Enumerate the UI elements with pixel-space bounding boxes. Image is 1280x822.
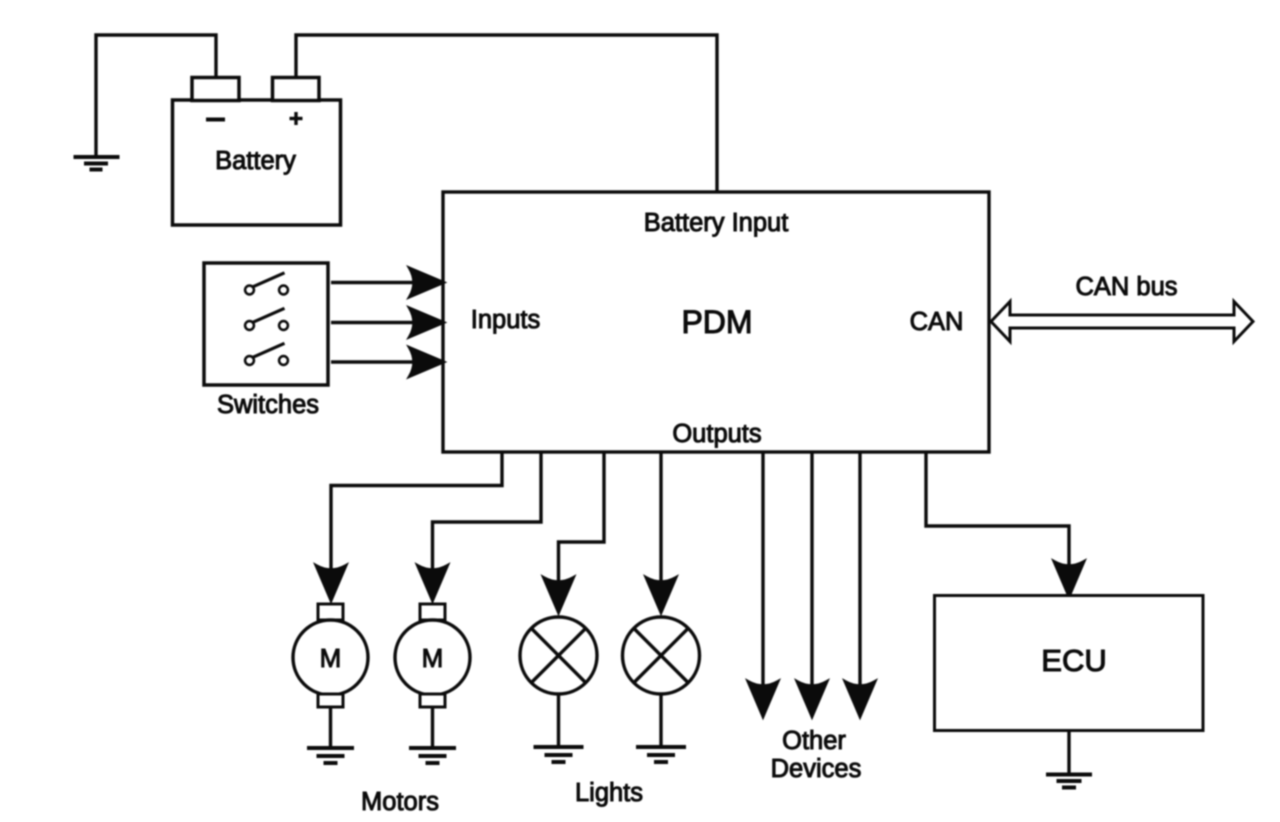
switch 3 [245, 343, 288, 365]
svg-text:M: M [422, 643, 444, 673]
svg-text:Lights: Lights [575, 779, 643, 807]
wire battery negative to ground [96, 35, 216, 157]
svg-text:Devices: Devices [771, 755, 862, 783]
wire output 2 to motor M2 [418, 452, 541, 600]
ground (motor M2) [409, 748, 456, 763]
input arrow 3 [331, 348, 443, 376]
motor M2 [395, 604, 470, 707]
switch 2 [245, 308, 288, 330]
svg-text:Motors: Motors [361, 788, 439, 816]
input arrow 1 [331, 269, 443, 297]
svg-text:Outputs: Outputs [672, 420, 761, 448]
svg-text:M: M [320, 643, 342, 673]
motor M1 [293, 604, 368, 707]
wire output 3 to lamp L1 [544, 452, 604, 612]
switches box [204, 263, 328, 385]
svg-text:PDM: PDM [681, 304, 752, 340]
wire ECU to ground [1067, 731, 1070, 775]
ground (ECU) [1046, 775, 1092, 788]
battery [173, 78, 341, 226]
svg-text:ECU: ECU [1041, 643, 1106, 678]
ground (lamp L2) [636, 747, 686, 762]
lamp L1 [520, 617, 597, 694]
other devices text label [771, 727, 862, 783]
wire output 6 other devices arrow [798, 452, 827, 716]
wire output 7 other devices arrow [846, 452, 875, 716]
wire battery positive to PDM battery input [296, 35, 717, 192]
svg-text:CAN bus: CAN bus [1075, 273, 1177, 301]
wire output 5 other devices arrow [749, 452, 778, 716]
svg-text:Switches: Switches [217, 391, 319, 419]
svg-text:Inputs: Inputs [471, 306, 540, 334]
lamp L2 [623, 617, 700, 694]
wire motor M2 to ground [431, 707, 434, 748]
ECU box [935, 596, 1204, 731]
battery minus label [206, 118, 225, 122]
wire output 1 to motor M1 [317, 452, 503, 600]
svg-text:Battery Input: Battery Input [644, 209, 789, 237]
ground (battery negative) [74, 157, 120, 170]
svg-text:CAN: CAN [910, 308, 964, 336]
ground (lamp L1) [534, 747, 584, 762]
wire lamp L1 to ground [557, 694, 560, 747]
svg-text:Battery: Battery [215, 147, 296, 175]
switch 1 [245, 273, 288, 295]
wire output 4 to lamp L2 [647, 452, 676, 612]
battery plus label [290, 112, 303, 125]
wire motor M1 to ground [329, 707, 332, 748]
svg-text:Other: Other [782, 727, 846, 755]
wire lamp L2 to ground [659, 694, 662, 747]
CAN bus double arrow [991, 302, 1253, 342]
ground (motor M1) [307, 748, 354, 763]
PDM box [443, 192, 989, 452]
input arrow 2 [331, 309, 443, 337]
wire output 8 to ECU [926, 452, 1084, 596]
